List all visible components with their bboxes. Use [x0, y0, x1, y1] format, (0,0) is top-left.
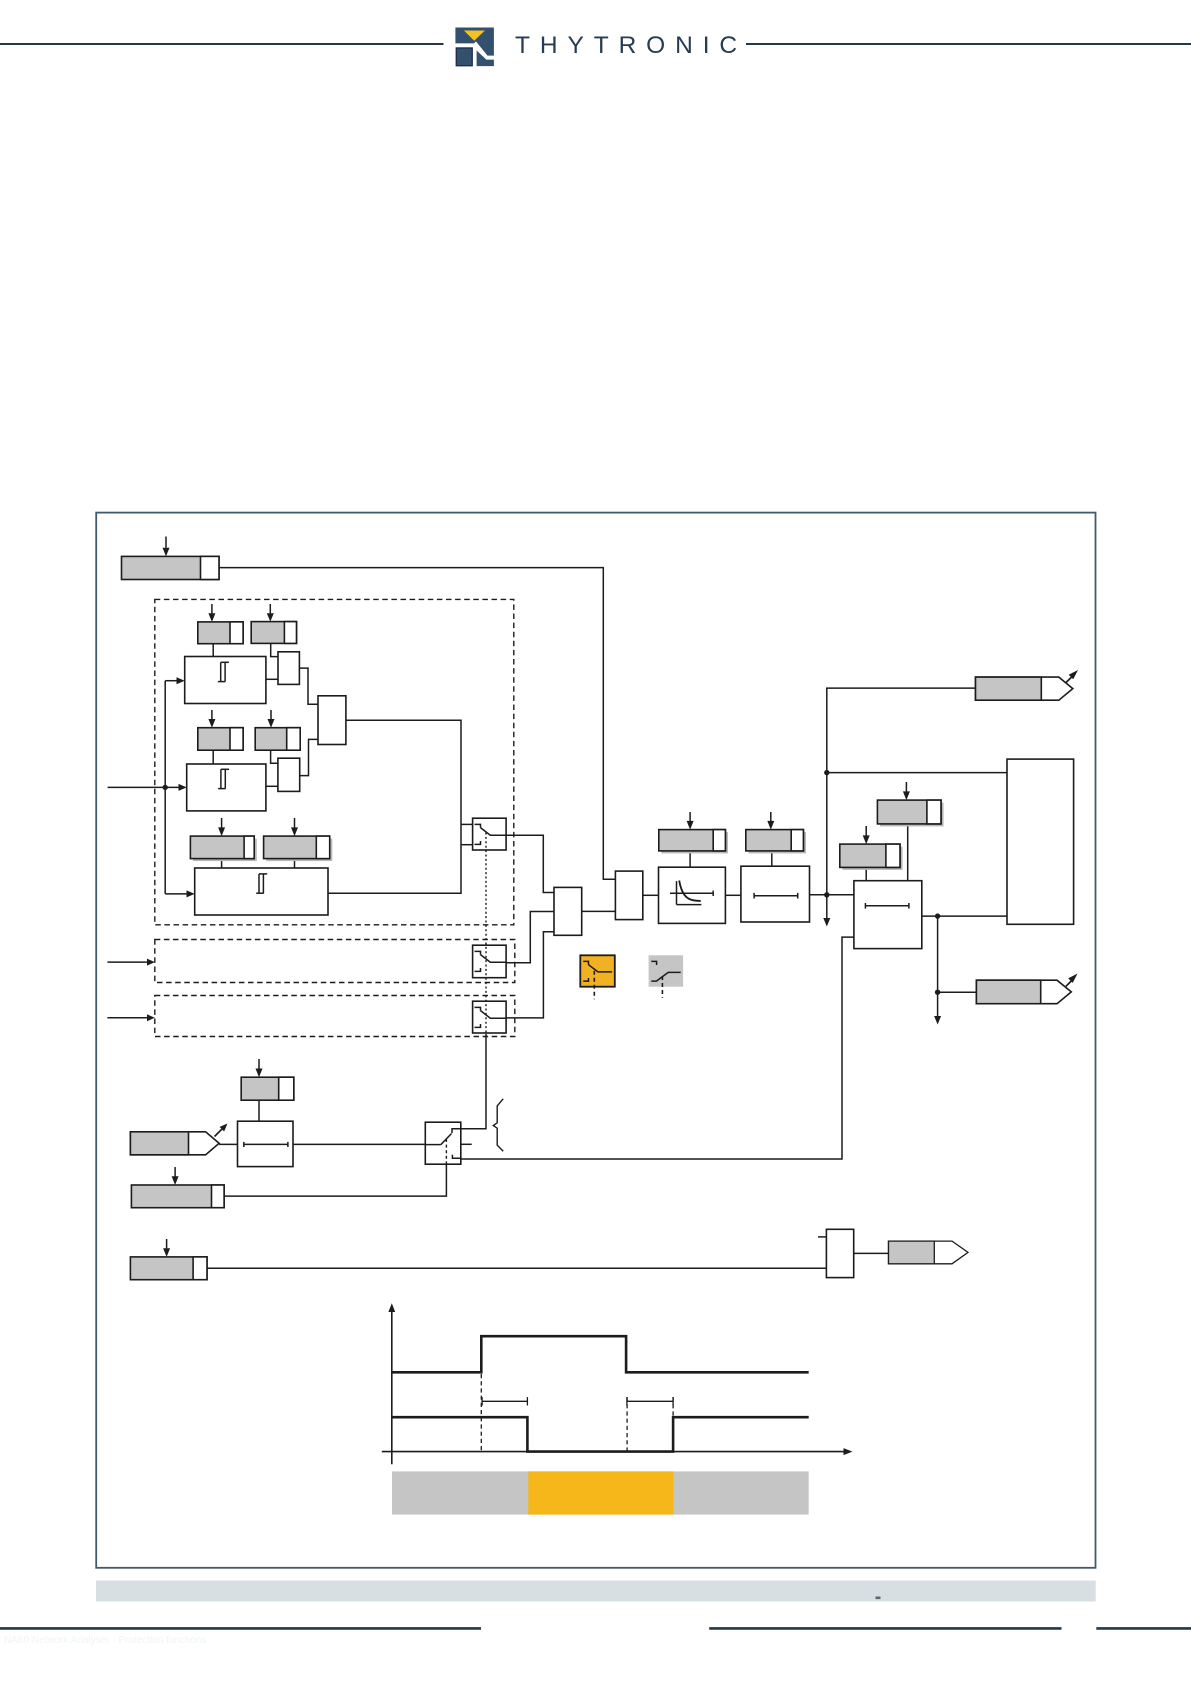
svg-text:THYTRONIC: THYTRONIC	[515, 32, 747, 59]
svg-text:NA60 Network Analyser - Protec: NA60 Network Analyser - Protection funct…	[4, 1635, 206, 1646]
